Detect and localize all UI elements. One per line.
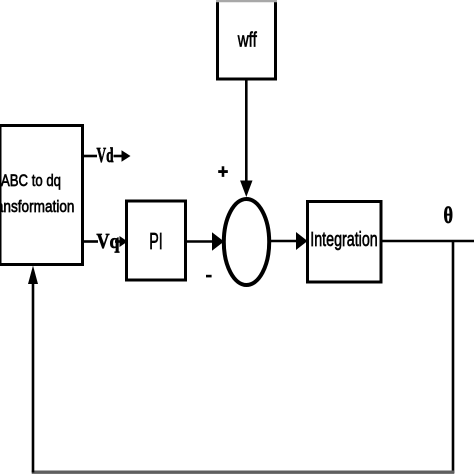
svg-text:+: + bbox=[218, 162, 229, 183]
svg-text:transformation: transformation bbox=[0, 198, 75, 216]
wire summing junction to Integration bbox=[268, 240, 297, 243]
svg-text:ABC to dq: ABC to dq bbox=[1, 172, 61, 190]
arrowhead into PI block bbox=[120, 236, 128, 247]
arrowhead Vd output bbox=[122, 150, 131, 162]
block PI controller bbox=[127, 201, 186, 280]
svg-text:θ: θ bbox=[444, 203, 454, 228]
wire feedback down segment bbox=[452, 241, 455, 473]
wire Vd output stub bbox=[83, 155, 98, 158]
svg-text:PI: PI bbox=[149, 228, 163, 254]
label - (minus sign at summing junction) bbox=[206, 275, 212, 278]
block wff (feedforward frequency) bbox=[216, 0, 277, 79]
block ABC to dq transformation bbox=[0, 126, 83, 265]
arrowhead into summing junction top bbox=[240, 181, 252, 198]
svg-text:Integration: Integration bbox=[310, 229, 378, 251]
wire wff to summing junction bbox=[245, 79, 248, 186]
wire feedback up segment bbox=[32, 283, 35, 473]
wire Vq from ABC box to PI bbox=[83, 240, 99, 243]
wire PI to summing junction bbox=[186, 240, 214, 243]
block Integration bbox=[308, 202, 382, 283]
svg-text:wff: wff bbox=[237, 30, 257, 52]
wire Vq arrow stub bbox=[115, 240, 121, 243]
wire feedback bottom segment bbox=[32, 471, 455, 474]
arrowhead into Integration block bbox=[296, 232, 308, 250]
arrowhead into ABC block bottom bbox=[28, 266, 38, 285]
wire Integration output to right edge bbox=[381, 240, 474, 243]
svg-text:Vd: Vd bbox=[97, 143, 114, 167]
summing junction (ellipse) bbox=[224, 199, 269, 285]
wire Vd arrow stub bbox=[114, 155, 124, 158]
arrowhead into summing junction left bbox=[212, 232, 224, 250]
